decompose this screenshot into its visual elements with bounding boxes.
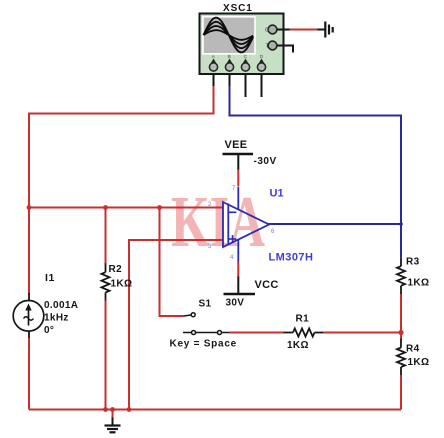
svg-text:XSC1: XSC1: [223, 3, 253, 14]
VCC supply: [237, 262, 239, 277]
wire: R2 branch top: [105, 208, 107, 265]
node: I1 / inverting-input junction: [27, 205, 32, 210]
svg-text:0.001A: 0.001A: [44, 300, 78, 311]
wire: inverting input line: [29, 207, 224, 209]
wire: S1 to R1: [229, 332, 284, 334]
wire: scope A to left rail (red): [29, 86, 214, 209]
wire: scope C stub: [245, 71, 247, 97]
wire: bottom rail: [29, 409, 401, 411]
svg-text:A: A: [212, 54, 215, 59]
resistor R4: [400, 339, 402, 348]
svg-text:30V: 30V: [226, 298, 245, 309]
svg-text:R1: R1: [296, 314, 310, 325]
wire: scope A lead down: [213, 71, 215, 87]
switch S1: [183, 313, 229, 335]
VEE supply: [237, 169, 239, 187]
svg-text:6: 6: [271, 229, 275, 235]
resistor R1: [284, 332, 294, 334]
wire: scope D stub: [261, 71, 263, 97]
svg-text:1kHz: 1kHz: [44, 313, 69, 324]
op-amp U1: [223, 187, 269, 262]
scope G wire to ground: [277, 29, 290, 31]
labels: [44, 257, 429, 369]
svg-text:LM307H: LM307H: [269, 252, 314, 264]
wire: I1 bottom lead: [28, 331, 30, 339]
svg-text:U1: U1: [270, 188, 284, 200]
svg-text:Key = Space: Key = Space: [170, 339, 237, 350]
svg-text:KIA: KIA: [171, 181, 265, 262]
ground (right): [324, 22, 326, 38]
wire: op-amp output (blue): [268, 223, 401, 225]
node: S1 branch junction: [157, 205, 162, 210]
svg-text:R2: R2: [109, 264, 123, 275]
wire: junction to R4: [400, 333, 402, 340]
node: non-inverting branch / bottom rail junction: [127, 407, 132, 412]
op-amp U1 pin numbers 2 3 6 7 4: [208, 186, 275, 261]
ground (bottom): [112, 410, 114, 419]
node: R2 / inverting-input junction: [103, 205, 108, 210]
svg-text:1KΩ: 1KΩ: [408, 357, 430, 368]
wire: scope B lead down: [229, 71, 231, 87]
svg-text:1KΩ: 1KΩ: [111, 279, 133, 290]
svg-text:R3: R3: [406, 257, 420, 268]
node: ground / bottom rail junction: [110, 407, 115, 412]
oscilloscope screen with sine trace: [203, 17, 255, 54]
svg-text:G: G: [265, 28, 269, 34]
svg-text:1KΩ: 1KΩ: [408, 278, 430, 289]
wire: left branch to I1: [28, 208, 30, 295]
wire: R4 to bottom rail: [400, 375, 402, 410]
svg-text:VCC: VCC: [255, 279, 279, 291]
resistor R3: [400, 257, 402, 266]
current source I1: [13, 301, 44, 332]
oscilloscope XSC1 body: [200, 14, 284, 75]
svg-text:1KΩ: 1KΩ: [287, 340, 309, 351]
scope T stub: [277, 46, 293, 53]
svg-text:S1: S1: [199, 299, 212, 310]
svg-text:-30V: -30V: [254, 156, 277, 167]
wire: I1 top lead: [28, 293, 30, 301]
wire: R1 to right junction: [323, 332, 401, 334]
node: output junction: [399, 222, 403, 226]
wire: non-inverting input line: [129, 240, 224, 410]
wire: scope B to right rail (blue): [230, 86, 402, 257]
svg-text:R4: R4: [406, 344, 420, 355]
wire: R2 to bottom rail: [105, 301, 107, 410]
svg-text:B: B: [228, 54, 231, 59]
svg-text:VEE: VEE: [225, 139, 248, 151]
scope bottom pins A B C D: [209, 54, 265, 71]
node: R3/R4/R1 junction: [398, 330, 403, 335]
svg-text:I1: I1: [45, 272, 55, 284]
wire: S1 branch: [160, 208, 185, 317]
wire: I1 to bottom rail: [28, 338, 30, 410]
resistor R2: [105, 263, 107, 272]
wire: R3 to junction (red): [400, 294, 402, 333]
scope G terminal: [268, 25, 277, 34]
svg-text:0°: 0°: [44, 325, 54, 336]
scope T terminal: [268, 41, 277, 50]
node: R2 / bottom rail junction: [103, 407, 108, 412]
